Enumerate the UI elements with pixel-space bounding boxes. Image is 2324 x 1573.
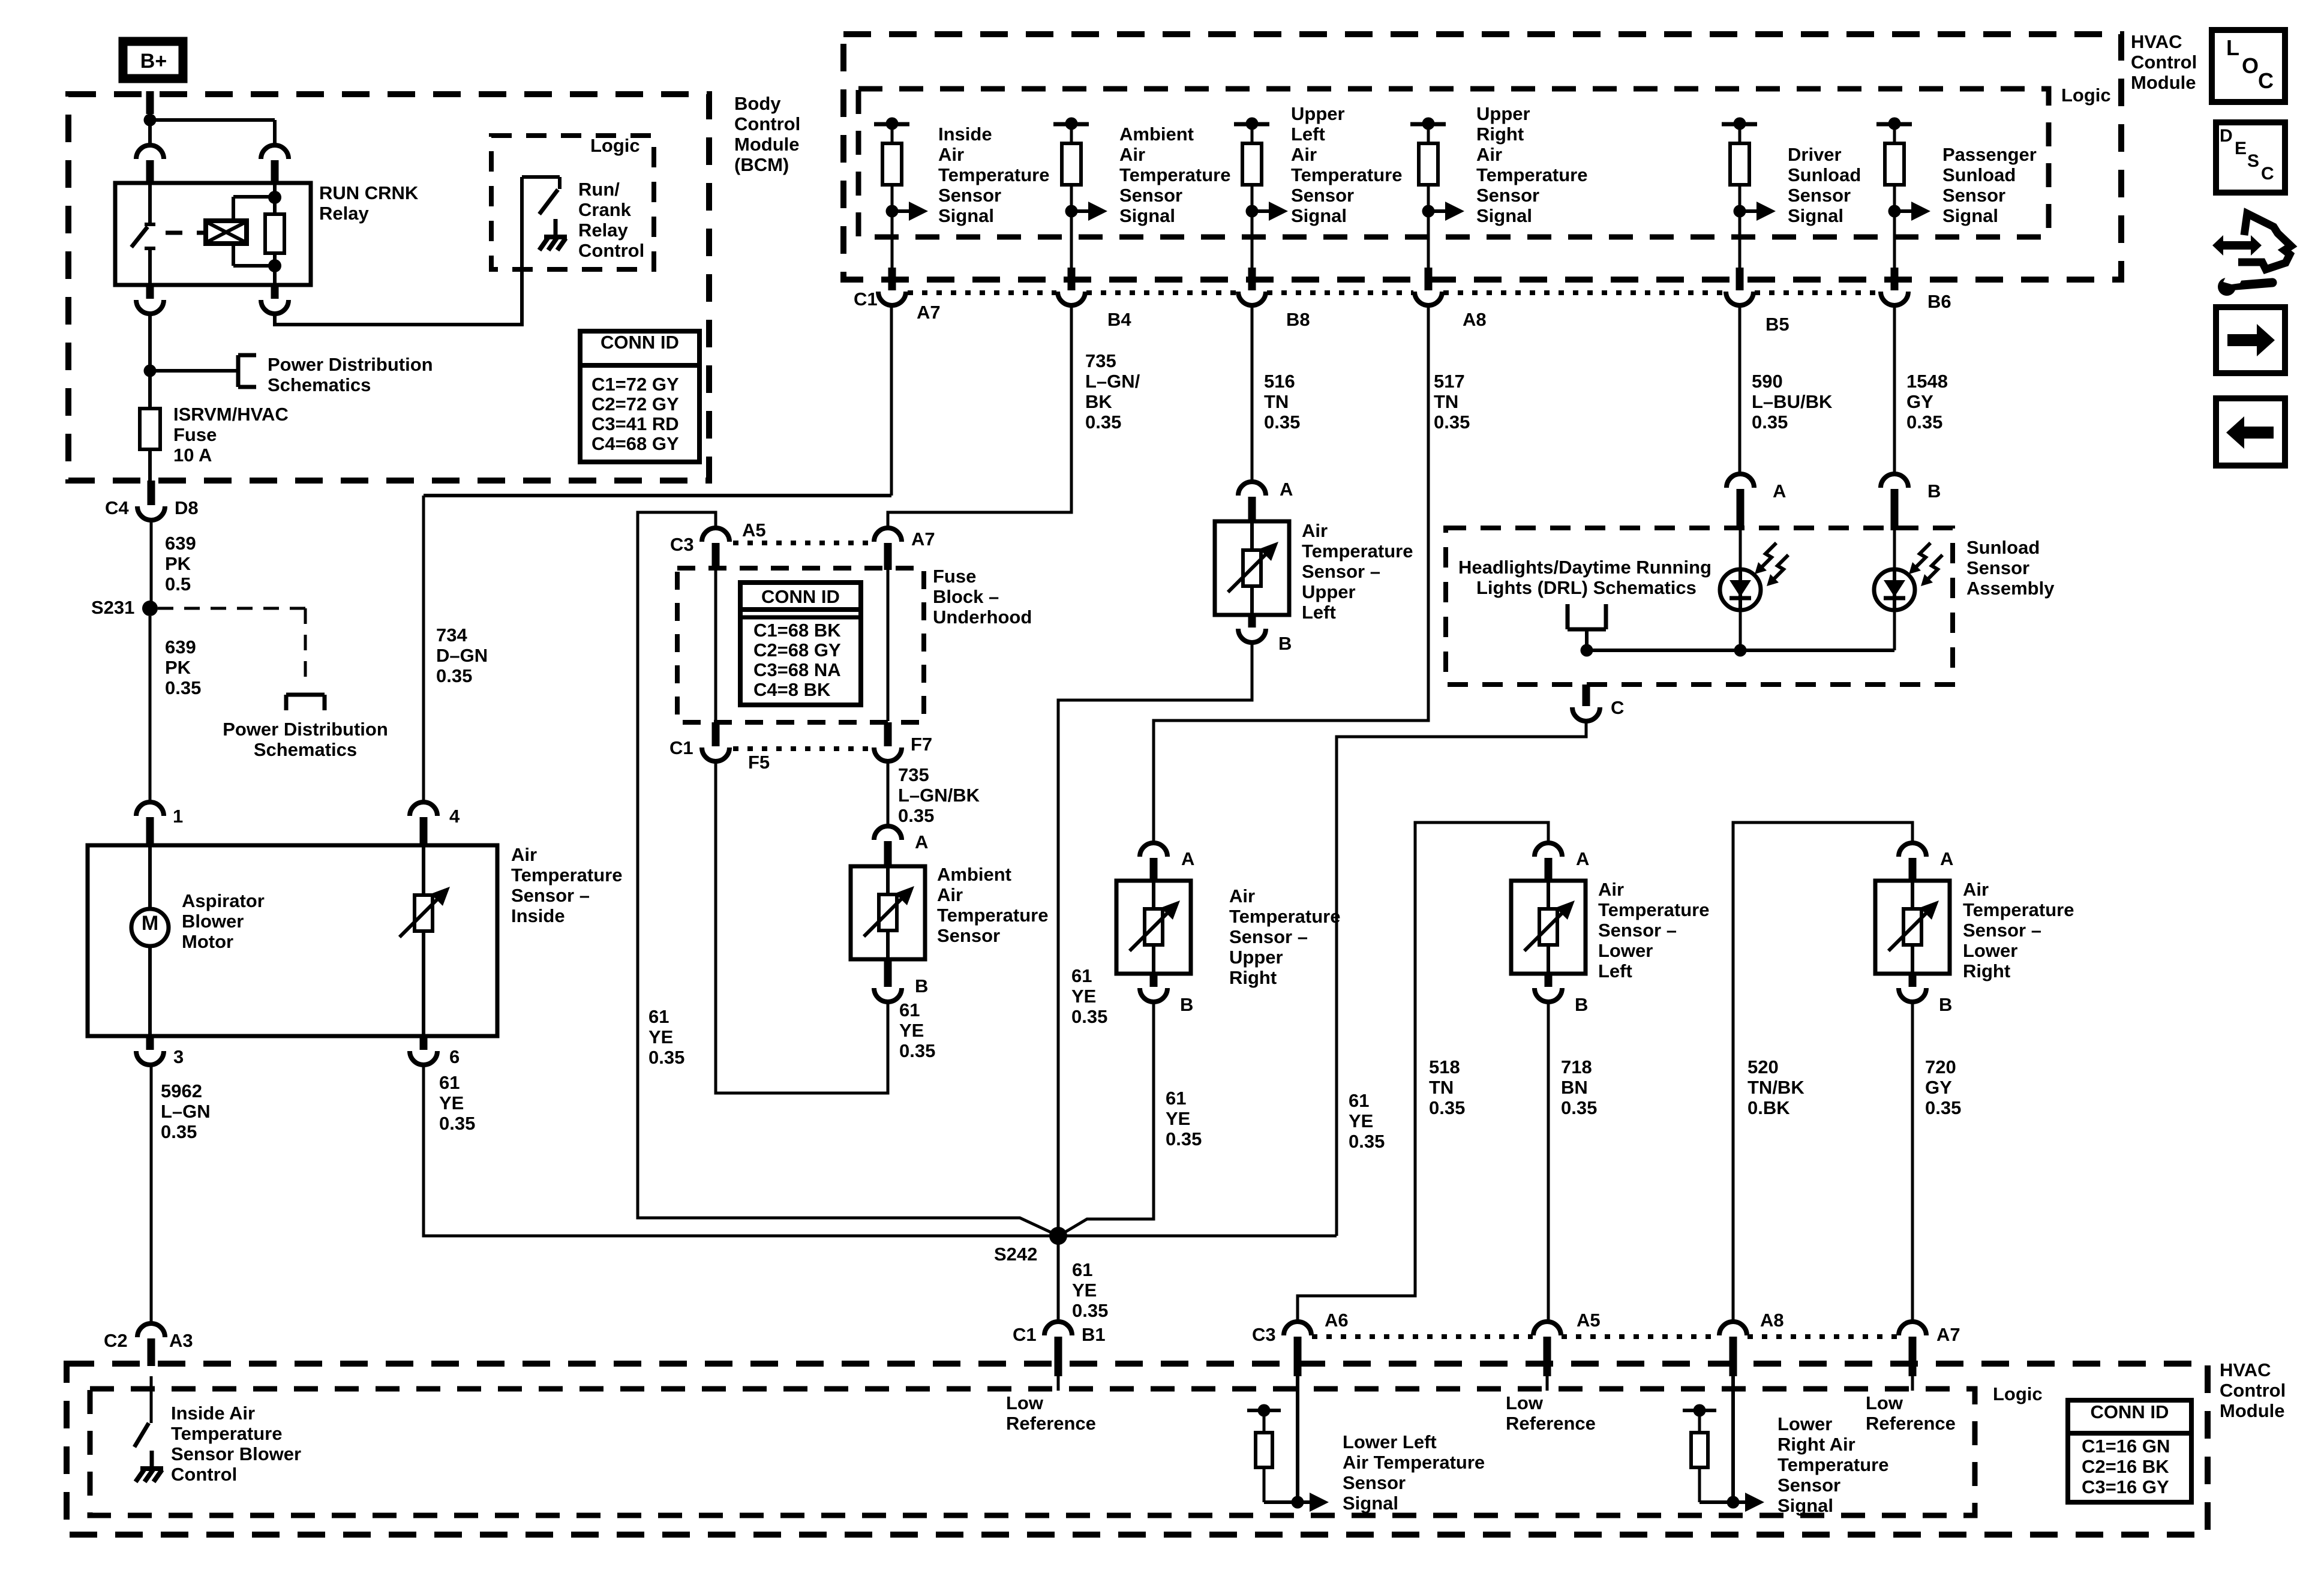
- connector lower left B: [1535, 974, 1588, 1015]
- label RUN CRNK Relay: [319, 182, 419, 224]
- svg-text:Relay: Relay: [578, 220, 628, 241]
- label passenger sunload sensor signal: [1942, 144, 2037, 226]
- connector stub driver sunload sensor signal: [1726, 268, 1753, 305]
- label 61 YE 0.35 upper right: [1166, 1088, 1202, 1149]
- svg-text:Control: Control: [171, 1464, 237, 1485]
- svg-text:Temperature: Temperature: [1119, 164, 1231, 185]
- svg-text:CONN ID: CONN ID: [600, 332, 679, 353]
- label Power Distribution Schematics 2: [223, 719, 388, 760]
- svg-text:720: 720: [1925, 1056, 1956, 1077]
- label Low Reference A7: [1866, 1392, 1956, 1434]
- svg-text:61: 61: [439, 1072, 460, 1093]
- svg-text:Logic: Logic: [2061, 85, 2111, 106]
- svg-text:Temperature: Temperature: [1777, 1454, 1889, 1475]
- label Lower Left Air Temperature Sensor Signal: [1343, 1431, 1485, 1514]
- svg-text:Temperature: Temperature: [938, 164, 1050, 185]
- svg-text:Air: Air: [1302, 520, 1328, 541]
- label conn A8: [1463, 309, 1487, 330]
- svg-text:61: 61: [1072, 1259, 1092, 1280]
- svg-text:0.35: 0.35: [1906, 412, 1942, 433]
- svg-text:0.35: 0.35: [1085, 412, 1121, 433]
- connector upper left B: [1238, 615, 1292, 654]
- pullup rail tick col upper right air temperature sensor signal: [1410, 118, 1446, 130]
- svg-text:HVAC: HVAC: [2220, 1359, 2271, 1380]
- wire upper left B to S242: [1058, 643, 1252, 1229]
- svg-text:Sensor –: Sensor –: [1302, 561, 1380, 582]
- wire S242 to B1: [1057, 1236, 1060, 1322]
- svg-text:B: B: [1939, 994, 1952, 1015]
- connector A7 bottom: [1899, 1322, 1960, 1376]
- wire B4 to fuse block: [888, 305, 1071, 528]
- svg-text:TN/BK: TN/BK: [1747, 1077, 1804, 1098]
- label conn B5: [1765, 314, 1789, 335]
- svg-text:Body: Body: [734, 93, 781, 114]
- svg-text:0.35: 0.35: [1072, 1300, 1108, 1321]
- wire A8 to upper right A: [1154, 305, 1428, 843]
- svg-text:734: 734: [436, 625, 467, 646]
- off-page ref DRL: [1568, 604, 1606, 650]
- svg-text:S231: S231: [91, 597, 134, 618]
- resistor driver sunload sensor signal: [1730, 124, 1749, 211]
- svg-text:YE: YE: [1072, 1280, 1097, 1301]
- svg-text:B1: B1: [1082, 1324, 1106, 1345]
- svg-text:Headlights/Daytime Running: Headlights/Daytime Running: [1458, 557, 1712, 578]
- svg-text:Power Distribution: Power Distribution: [223, 719, 388, 740]
- svg-text:Reference: Reference: [1506, 1413, 1596, 1434]
- svg-text:Sensor –: Sensor –: [1598, 920, 1677, 941]
- svg-text:Aspirator: Aspirator: [182, 890, 265, 911]
- svg-text:(BCM): (BCM): [734, 154, 789, 175]
- connector relay pin bottom-left: [136, 285, 164, 314]
- connector ambient A: [874, 826, 928, 866]
- svg-text:0.35: 0.35: [161, 1121, 197, 1142]
- wire pin6 to S242: [424, 1065, 1337, 1236]
- pullup rail tick col passenger sunload sensor signal: [1876, 118, 1912, 130]
- svg-text:GY: GY: [1925, 1077, 1952, 1098]
- svg-text:C: C: [1611, 697, 1624, 718]
- wire fuse to C4: [148, 449, 152, 484]
- connector A8 bottom: [1719, 1310, 1784, 1376]
- label Inside Air Temperature Sensor Blower Control: [171, 1403, 301, 1485]
- svg-text:Temperature: Temperature: [511, 864, 623, 885]
- air temperature sensor upper right box: [1116, 881, 1191, 974]
- connector sunload C: [1572, 685, 1624, 721]
- svg-text:Sensor: Sensor: [1119, 185, 1182, 206]
- connector ambient B: [874, 959, 928, 1002]
- svg-text:C4=8 BK: C4=8 BK: [753, 679, 831, 700]
- wire ambient B to F5: [716, 761, 888, 1093]
- wire A7 low reference stub: [1911, 1376, 1914, 1391]
- svg-text:Lower Left: Lower Left: [1343, 1431, 1437, 1452]
- icon wrench arrows: [2212, 214, 2291, 296]
- label Sunload Sensor Assembly: [1966, 537, 2055, 599]
- svg-text:Assembly: Assembly: [1966, 578, 2055, 599]
- svg-text:518: 518: [1429, 1056, 1460, 1077]
- connector pin 3: [136, 1036, 184, 1067]
- svg-text:Ambient: Ambient: [937, 864, 1011, 885]
- svg-text:PK: PK: [165, 553, 191, 574]
- svg-text:L: L: [2226, 35, 2239, 60]
- resistor upper left air temperature sensor signal: [1242, 124, 1262, 211]
- svg-text:Lower: Lower: [1598, 940, 1653, 961]
- label conn A7: [917, 302, 941, 323]
- connector pin 6: [410, 1036, 460, 1067]
- svg-text:517: 517: [1434, 371, 1465, 392]
- svg-text:A: A: [1181, 848, 1194, 869]
- label conn B6: [1927, 291, 1951, 312]
- svg-text:Low: Low: [1006, 1392, 1044, 1413]
- svg-text:Crank: Crank: [578, 199, 632, 220]
- svg-text:Lower: Lower: [1963, 940, 2017, 961]
- label 61 YE 0.35 upper left: [1071, 965, 1107, 1027]
- svg-text:Reference: Reference: [1006, 1413, 1096, 1434]
- svg-text:Control: Control: [578, 240, 644, 261]
- svg-text:A: A: [1940, 848, 1953, 869]
- svg-text:PK: PK: [165, 657, 191, 678]
- node relay feed junction: [144, 114, 275, 146]
- air temperature sensor upper left box: [1215, 521, 1289, 615]
- splice S231: [91, 597, 158, 618]
- svg-text:Right: Right: [1963, 960, 2010, 981]
- svg-text:CONN ID: CONN ID: [761, 586, 840, 607]
- svg-text:Air: Air: [1229, 885, 1255, 906]
- label Lower Right Air Temperature Sensor Signal: [1777, 1413, 1889, 1516]
- svg-text:Schematics: Schematics: [254, 739, 357, 760]
- svg-text:CONN ID: CONN ID: [2091, 1401, 2169, 1422]
- svg-text:F5: F5: [748, 752, 770, 773]
- svg-text:718: 718: [1561, 1056, 1592, 1077]
- svg-text:Module: Module: [2220, 1400, 2285, 1421]
- inside air temp blower control switch: [134, 1376, 151, 1447]
- svg-text:Driver: Driver: [1788, 144, 1842, 165]
- label driver sunload sensor signal: [1788, 144, 1861, 226]
- aspirator blower motor box: [88, 845, 497, 1036]
- svg-text:Signal: Signal: [1777, 1495, 1833, 1516]
- svg-text:Sensor: Sensor: [1291, 185, 1354, 206]
- svg-text:Temperature: Temperature: [1302, 541, 1413, 562]
- pullup rail tick col upper left air temperature sensor signal: [1234, 118, 1269, 130]
- label HVAC Control Module top: [2131, 31, 2197, 93]
- signal arrow driver sunload sensor signal: [1734, 202, 1776, 221]
- sunload common wire: [1581, 644, 1895, 657]
- svg-text:Left: Left: [1302, 602, 1336, 623]
- svg-text:Fuse: Fuse: [173, 424, 217, 445]
- label 61 YE 0.35 ambient: [899, 999, 935, 1061]
- svg-text:A: A: [1576, 848, 1589, 869]
- relay internal resistor: [265, 185, 284, 283]
- power feed B+ terminal: [123, 41, 183, 79]
- ground run crank relay control: [539, 219, 567, 250]
- svg-text:Temperature: Temperature: [1598, 899, 1710, 920]
- wire A5 low reference stub: [1546, 1376, 1549, 1391]
- svg-text:TN: TN: [1429, 1077, 1454, 1098]
- svg-text:0.35: 0.35: [1925, 1097, 1961, 1118]
- wire inside fuse block A5-F5: [714, 570, 717, 721]
- svg-text:0.35: 0.35: [1349, 1131, 1385, 1152]
- svg-text:B: B: [1278, 633, 1292, 654]
- svg-text:B+: B+: [140, 50, 167, 73]
- svg-text:Air: Air: [938, 144, 964, 165]
- svg-text:Left: Left: [1291, 124, 1325, 145]
- svg-text:0.35: 0.35: [899, 1040, 935, 1061]
- svg-text:61: 61: [1166, 1088, 1186, 1109]
- label Low Reference A5: [1506, 1392, 1596, 1434]
- svg-text:Right: Right: [1476, 124, 1524, 145]
- svg-text:M: M: [142, 912, 158, 935]
- label 720 GY 0.35: [1925, 1056, 1961, 1118]
- lower left signal resistor network: [1247, 1376, 1329, 1512]
- wire relay to fuse: [148, 314, 152, 409]
- signal arrow upper left air temperature sensor signal: [1246, 202, 1289, 221]
- connector pin 4: [410, 802, 460, 845]
- svg-text:A5: A5: [742, 520, 766, 541]
- wire B5 to sunload A: [1739, 305, 1742, 474]
- run crank relay control switch: [522, 177, 560, 214]
- svg-text:C1=68 BK: C1=68 BK: [753, 620, 841, 641]
- connector fuse F5 bottom: [669, 722, 770, 773]
- label 516 TN 0.35: [1264, 371, 1300, 433]
- svg-text:Control: Control: [734, 113, 800, 134]
- svg-text:Module: Module: [2131, 72, 2196, 93]
- label 734 D-GN 0.35: [436, 625, 488, 686]
- label Low Reference B1: [1006, 1392, 1096, 1434]
- svg-text:Sunload: Sunload: [1942, 164, 2016, 185]
- svg-text:Blower: Blower: [182, 911, 244, 932]
- svg-text:F7: F7: [911, 734, 932, 755]
- connector fuse A7 top: [874, 528, 935, 570]
- svg-text:5962: 5962: [161, 1080, 202, 1101]
- connector upper right A: [1140, 843, 1194, 881]
- label conn B8: [1286, 309, 1310, 330]
- svg-text:C3: C3: [1252, 1324, 1276, 1345]
- svg-text:Sensor: Sensor: [1788, 185, 1851, 206]
- svg-text:YE: YE: [1166, 1108, 1190, 1129]
- svg-text:516: 516: [1264, 371, 1295, 392]
- svg-text:0.35: 0.35: [439, 1113, 475, 1134]
- svg-text:0.35: 0.35: [898, 805, 934, 826]
- svg-text:735: 735: [898, 764, 929, 785]
- svg-text:0.35: 0.35: [1166, 1128, 1202, 1149]
- svg-text:Underhood: Underhood: [933, 607, 1032, 628]
- label 61 YE 0.35 sunload C: [1349, 1090, 1385, 1152]
- svg-text:Sensor: Sensor: [938, 185, 1001, 206]
- svg-text:Temperature: Temperature: [937, 905, 1049, 926]
- label 61 YE 0.35 pin6: [439, 1072, 475, 1134]
- svg-text:520: 520: [1747, 1056, 1779, 1077]
- connector stub upper right air temperature sensor signal: [1415, 268, 1442, 305]
- svg-text:0.35: 0.35: [1264, 412, 1300, 433]
- label 520 TN/BK 0.BK: [1747, 1056, 1804, 1118]
- svg-text:Block –: Block –: [933, 586, 999, 607]
- svg-text:YE: YE: [899, 1020, 924, 1041]
- label ambient air temperature sensor signal: [1119, 124, 1231, 226]
- svg-text:Inside: Inside: [938, 124, 992, 145]
- wire F7 to ambient A: [887, 761, 890, 826]
- connector C2/A3: [104, 1323, 193, 1366]
- wire upper right B to S242: [1062, 1002, 1154, 1234]
- wire lower right B to A7: [1911, 1002, 1914, 1322]
- label Fuse Block Underhood: [933, 566, 1032, 628]
- svg-text:Sensor: Sensor: [937, 925, 1000, 946]
- svg-text:Control: Control: [2220, 1380, 2286, 1401]
- sunload assembly dashed box: [1446, 528, 1953, 685]
- svg-text:Air: Air: [511, 844, 537, 865]
- svg-text:Air: Air: [1291, 144, 1317, 165]
- label upper right air temperature sensor signal: [1476, 103, 1588, 226]
- connector relay pin top-right: [261, 145, 289, 183]
- HVAC bottom CONN ID table: [2068, 1400, 2191, 1502]
- connector row dotted line bottom: [1312, 1334, 1898, 1339]
- svg-text:C2: C2: [104, 1330, 128, 1351]
- label Run Crank Relay Control: [578, 179, 644, 261]
- svg-text:YE: YE: [1349, 1110, 1373, 1131]
- wires motor pins: [148, 845, 152, 1036]
- label 61 YE 0.35 below S242: [1072, 1259, 1108, 1321]
- svg-text:L–BU/BK: L–BU/BK: [1752, 391, 1833, 412]
- svg-text:61: 61: [1349, 1090, 1369, 1111]
- HVAC bottom logic dashed box: [90, 1389, 1975, 1515]
- svg-text:RUN CRNK: RUN CRNK: [319, 182, 419, 203]
- wire driver sunload sensor signal to connector: [1739, 211, 1742, 271]
- svg-text:B6: B6: [1927, 291, 1951, 312]
- svg-text:YE: YE: [439, 1092, 464, 1113]
- wire B6 to sunload B: [1893, 305, 1896, 474]
- fuse block dashed box: [677, 568, 924, 722]
- connector C4/D8: [105, 481, 199, 520]
- svg-text:A: A: [1280, 479, 1293, 500]
- svg-text:0.BK: 0.BK: [1747, 1097, 1790, 1118]
- svg-text:Temperature: Temperature: [1229, 906, 1341, 927]
- svg-text:C: C: [2258, 68, 2274, 93]
- svg-text:Sensor –: Sensor –: [1963, 920, 2041, 941]
- svg-text:Air: Air: [1963, 879, 1989, 900]
- svg-text:Signal: Signal: [1291, 205, 1347, 226]
- svg-text:Temperature: Temperature: [1476, 164, 1588, 185]
- svg-text:Upper: Upper: [1291, 103, 1345, 124]
- svg-text:Air: Air: [1119, 144, 1145, 165]
- resistor upper right air temperature sensor signal: [1419, 124, 1438, 211]
- off-page ref power distribution: [238, 355, 256, 387]
- svg-text:D: D: [2220, 126, 2233, 146]
- svg-text:Module: Module: [734, 134, 800, 155]
- HVAC bottom outer dashed box: [67, 1364, 2208, 1535]
- svg-text:Temperature: Temperature: [1963, 899, 2074, 920]
- svg-text:C1=16 GN: C1=16 GN: [2082, 1436, 2170, 1457]
- dashed wire S231 branch: [158, 608, 305, 688]
- label Air Temperature Sensor Lower Right: [1963, 879, 2074, 981]
- svg-text:S242: S242: [994, 1244, 1037, 1265]
- svg-text:L–GN/BK: L–GN/BK: [898, 785, 980, 806]
- label Logic bottom: [1993, 1383, 2043, 1404]
- svg-text:B4: B4: [1107, 309, 1131, 330]
- svg-text:BN: BN: [1561, 1077, 1588, 1098]
- svg-text:10 A: 10 A: [173, 445, 212, 466]
- svg-text:6: 6: [449, 1046, 460, 1067]
- wire A5 loop: [638, 512, 1055, 1234]
- label 517 TN 0.35: [1434, 371, 1470, 433]
- connector sunload B: [1881, 474, 1941, 530]
- icon LOC box: [2212, 30, 2285, 102]
- svg-text:C: C: [2261, 164, 2274, 184]
- air temperature sensor lower right box: [1875, 881, 1950, 974]
- svg-text:A: A: [915, 831, 928, 852]
- svg-text:Upper: Upper: [1476, 103, 1530, 124]
- svg-text:0.35: 0.35: [165, 677, 201, 698]
- svg-text:B: B: [1927, 481, 1941, 502]
- label C1 conn: [854, 289, 878, 310]
- svg-text:C1: C1: [669, 737, 693, 758]
- resistor passenger sunload sensor signal: [1885, 124, 1904, 211]
- wire C4 to S231: [150, 520, 153, 608]
- resistor ambient air temperature sensor signal: [1062, 124, 1081, 211]
- off-page ref power distribution 2: [286, 695, 325, 710]
- svg-text:A7: A7: [911, 529, 935, 550]
- BCM CONN ID table: [580, 331, 699, 462]
- svg-text:Upper: Upper: [1302, 581, 1356, 602]
- HVAC control module outer dashed box: [843, 34, 2121, 280]
- svg-text:Run/: Run/: [578, 179, 620, 200]
- connector fuse F7 bottom: [874, 722, 932, 761]
- svg-text:C3: C3: [670, 534, 694, 555]
- wire ambient air temperature sensor signal to connector: [1070, 211, 1073, 271]
- svg-text:0.35: 0.35: [436, 665, 472, 686]
- connector stub upper left air temperature sensor signal: [1238, 268, 1266, 305]
- connector relay pin top-left: [136, 145, 164, 183]
- relay RUN CRNK box: [115, 183, 311, 285]
- lower right signal resistor network: [1683, 1376, 1764, 1512]
- svg-text:Sensor: Sensor: [1476, 185, 1539, 206]
- label conn B4: [1107, 309, 1131, 330]
- label HVAC Control Module bottom: [2220, 1359, 2286, 1421]
- wire relay to BCM logic switch: [275, 177, 522, 325]
- icon prev page box: [2216, 398, 2285, 466]
- svg-text:S: S: [2247, 151, 2259, 171]
- svg-text:1548: 1548: [1906, 371, 1948, 392]
- svg-text:TN: TN: [1434, 391, 1458, 412]
- label Body Control Module (BCM): [734, 93, 800, 175]
- svg-text:A8: A8: [1760, 1310, 1784, 1331]
- label inside air temperature sensor signal: [938, 124, 1050, 226]
- wire 734 to pin4: [424, 304, 891, 802]
- svg-text:B: B: [915, 975, 928, 996]
- svg-text:Sensor –: Sensor –: [1229, 926, 1308, 947]
- svg-text:Ambient: Ambient: [1119, 124, 1194, 145]
- connector fuse A5 top: [670, 520, 766, 570]
- wire lower left B to A5: [1547, 1002, 1550, 1322]
- svg-text:B: B: [1180, 994, 1193, 1015]
- Body Control Module dashed box: [68, 94, 709, 481]
- fuse row dotted top: [733, 541, 871, 545]
- svg-text:639: 639: [165, 637, 196, 658]
- svg-text:0.35: 0.35: [1071, 1006, 1107, 1027]
- connector stub passenger sunload sensor signal: [1881, 268, 1908, 305]
- svg-text:A8: A8: [1463, 309, 1487, 330]
- label Aspirator Blower Motor: [182, 890, 265, 952]
- label ISRVM/HVAC Fuse 10A: [173, 404, 289, 466]
- svg-text:Right: Right: [1229, 967, 1277, 988]
- HVAC logic dashed box: [858, 89, 2049, 237]
- svg-text:C1=72 GY: C1=72 GY: [591, 374, 679, 395]
- svg-text:Signal: Signal: [1942, 205, 1998, 226]
- pullup rail tick col ambient air temperature sensor signal: [1053, 118, 1089, 130]
- connector pin 1: [136, 802, 183, 845]
- signal arrow inside air temperature sensor signal: [886, 202, 929, 221]
- svg-text:C4: C4: [105, 497, 129, 518]
- svg-text:Low: Low: [1506, 1392, 1544, 1413]
- svg-text:Sensor: Sensor: [1777, 1475, 1840, 1496]
- BCM Logic dashed box: [491, 136, 654, 269]
- wire A8b to lower right A: [1733, 822, 1912, 1322]
